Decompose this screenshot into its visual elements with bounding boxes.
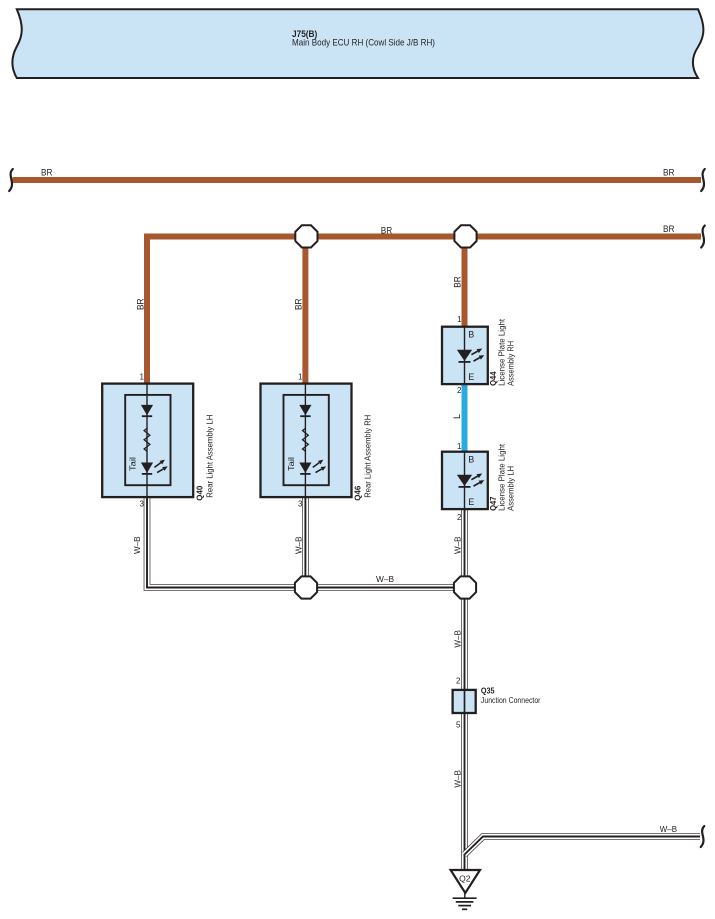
- svg-text:1: 1: [140, 373, 145, 382]
- svg-text:5: 5: [456, 720, 461, 729]
- svg-text:B: B: [468, 455, 474, 465]
- svg-text:W–B: W–B: [453, 770, 463, 788]
- svg-text:E: E: [468, 497, 474, 507]
- svg-text:W–B: W–B: [132, 536, 142, 554]
- svg-text:W–B: W–B: [453, 536, 463, 554]
- svg-text:Q46: Q46: [354, 485, 363, 501]
- svg-text:1: 1: [457, 442, 462, 451]
- svg-text:Tail: Tail: [129, 457, 138, 471]
- svg-text:Main Body ECU RH (Cowl Side J/: Main Body ECU RH (Cowl Side J/B RH): [292, 38, 435, 49]
- svg-text:BR: BR: [453, 276, 463, 288]
- svg-text:Rear Light Assembly LH: Rear Light Assembly LH: [205, 414, 214, 497]
- svg-text:E: E: [468, 372, 474, 382]
- svg-text:BR: BR: [294, 298, 304, 310]
- svg-text:1: 1: [298, 373, 303, 382]
- svg-text:BR: BR: [136, 298, 146, 310]
- svg-text:Q40: Q40: [195, 485, 204, 501]
- svg-text:Q35: Q35: [481, 687, 495, 696]
- svg-text:2: 2: [456, 677, 461, 686]
- svg-text:BR: BR: [381, 225, 393, 235]
- svg-text:License Plate Light: License Plate Light: [498, 443, 507, 511]
- svg-text:2: 2: [457, 386, 462, 395]
- svg-text:3: 3: [298, 500, 303, 509]
- svg-text:Tail: Tail: [287, 457, 296, 471]
- svg-text:W–B: W–B: [453, 630, 463, 648]
- svg-text:3: 3: [140, 500, 145, 509]
- svg-text:W–B: W–B: [660, 824, 678, 834]
- svg-text:2: 2: [457, 513, 462, 522]
- svg-text:Assembly RH: Assembly RH: [506, 341, 515, 386]
- svg-text:BR: BR: [663, 224, 675, 234]
- svg-text:W–B: W–B: [376, 574, 394, 584]
- svg-text:License Plate Light: License Plate Light: [498, 318, 507, 386]
- svg-text:Q2: Q2: [459, 874, 471, 884]
- svg-text:Junction Connector: Junction Connector: [481, 696, 541, 705]
- svg-text:Rear Light Assembly RH: Rear Light Assembly RH: [364, 414, 373, 497]
- svg-text:W–B: W–B: [294, 536, 304, 554]
- svg-text:Assembly LH: Assembly LH: [506, 466, 515, 511]
- svg-text:BR: BR: [41, 167, 53, 177]
- svg-text:BR: BR: [663, 167, 675, 177]
- svg-text:B: B: [468, 330, 474, 340]
- svg-text:L: L: [452, 414, 462, 419]
- svg-text:1: 1: [457, 315, 462, 324]
